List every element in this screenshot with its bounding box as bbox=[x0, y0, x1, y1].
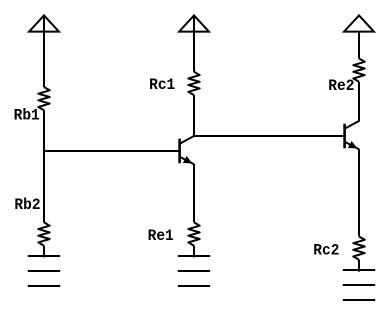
wire Re2 to Q2 collector bbox=[358, 82, 360, 122]
ground (middle) bbox=[178, 256, 210, 286]
wire Rb2 to ground bbox=[43, 246, 45, 258]
svg-text:Rb1: Rb1 bbox=[14, 106, 40, 124]
resistor Rb2 bbox=[38, 222, 49, 245]
svg-text:Rb2: Rb2 bbox=[14, 196, 40, 214]
wire Re1 to ground bbox=[193, 246, 195, 258]
resistor Re1 bbox=[188, 222, 199, 245]
node base-divider / wire to Q1 base bbox=[44, 150, 181, 152]
svg-text:Re1: Re1 bbox=[148, 227, 174, 245]
transistor Q2 (NPN) bbox=[345, 121, 359, 149]
power VCC arrow (left) bbox=[29, 15, 59, 31]
svg-text:Rc2: Rc2 bbox=[313, 242, 339, 260]
wire Rc1 to Q1 collector bbox=[193, 95, 195, 137]
wire VCC middle vertical bbox=[193, 15, 195, 71]
resistor Re2 bbox=[353, 59, 364, 82]
resistor Rc1 bbox=[188, 72, 199, 95]
wire Q1 collector to Q2 base bbox=[194, 135, 346, 137]
ground (right) bbox=[343, 270, 375, 300]
svg-text:Rc1: Rc1 bbox=[149, 76, 175, 94]
wire Q1 emitter to Re1 bbox=[193, 164, 195, 222]
transistor Q1 (NPN) bbox=[180, 136, 194, 164]
wire VCC right vertical bbox=[358, 32, 360, 59]
resistor Rb1 bbox=[38, 87, 49, 110]
wire Rb1 to Rb2 vertical bbox=[43, 110, 45, 222]
wire Q2 emitter to Rc2 bbox=[358, 149, 360, 237]
ground (left) bbox=[28, 256, 60, 286]
power VCC arrow (middle) bbox=[179, 15, 209, 31]
resistor Rc2 bbox=[353, 237, 364, 260]
svg-text:Re2: Re2 bbox=[328, 77, 354, 95]
wire VCC left vertical bbox=[43, 15, 45, 87]
wire Rc2 to ground bbox=[358, 260, 360, 272]
power VCC arrow (right) bbox=[344, 15, 374, 31]
